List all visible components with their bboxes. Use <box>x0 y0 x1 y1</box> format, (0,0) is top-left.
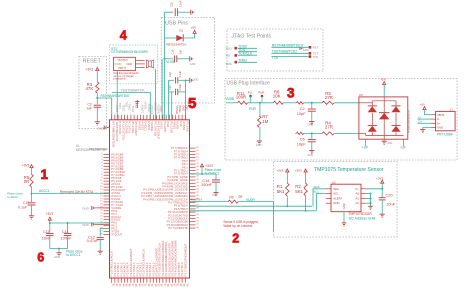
svg-text:to DVCC2: to DVCC2 <box>205 171 220 175</box>
svg-text:A0: A0 <box>355 192 359 196</box>
svg-text:V18X: V18X <box>160 106 164 113</box>
junction R2-SCL <box>305 210 307 212</box>
svg-text:USB Plug Interface: USB Plug Interface <box>227 80 270 86</box>
svg-text:TDI: TDI <box>225 54 230 58</box>
wire <box>226 102 238 104</box>
svg-text:TEST/SBWTCK: TEST/SBWTCK <box>121 88 146 92</box>
TVS array U3 body <box>359 97 408 139</box>
junction C2 <box>311 102 313 104</box>
wire D+ to TVS <box>334 102 359 104</box>
capacitor C15 on VUSB <box>165 58 174 60</box>
svg-text:0R: 0R <box>238 195 243 199</box>
svg-text:INPUT: INPUT <box>119 67 127 70</box>
U2 left pins <box>326 188 331 190</box>
svg-text:GND: GND <box>190 62 196 66</box>
resistor R11 100R <box>238 101 248 104</box>
testpoint pad RST <box>309 46 312 49</box>
section box: USB Plug Interface <box>225 79 457 161</box>
svg-text:+UP: +UP <box>362 146 369 150</box>
node AVCC junction <box>31 193 33 195</box>
node PUR <box>261 95 264 98</box>
wire cap join <box>50 248 68 250</box>
svg-text:A2: A2 <box>355 201 359 205</box>
resistor R8 10K <box>273 101 283 104</box>
svg-text:0R: 0R <box>24 179 29 184</box>
svg-text:27R: 27R <box>325 95 333 100</box>
svg-text:GND: GND <box>387 141 393 145</box>
svg-text:-UP: -UP <box>400 146 406 150</box>
svg-text:GND: GND <box>82 206 88 210</box>
svg-text:10pF: 10pF <box>297 111 306 116</box>
svg-text:D-: D- <box>418 115 421 119</box>
capacitor C19 2.2uF <box>169 91 174 93</box>
TVS internal rails <box>383 97 385 139</box>
node PU <box>249 95 252 98</box>
svg-text:100R: 100R <box>236 95 246 100</box>
svg-text:8.00M: 8.00M <box>115 63 122 66</box>
junction PUR rail <box>259 102 261 104</box>
ground (C14) <box>213 192 218 194</box>
capacitor C14 100nF <box>215 174 217 179</box>
section box: RESET <box>79 57 107 129</box>
diode D2b <box>391 106 400 112</box>
resistor R3 47K <box>96 82 99 93</box>
svg-text:GND: GND <box>256 143 262 147</box>
wire <box>96 93 98 104</box>
wire DVCC2 <box>190 173 217 175</box>
wire <box>96 71 98 82</box>
wire <box>283 102 296 104</box>
svg-text:Removed 32KHz XTAL →: Removed 32KHz XTAL → <box>60 190 98 194</box>
ground (rotated, C13) <box>190 10 192 15</box>
wire VU0R <box>238 201 273 203</box>
svg-text:V+: V+ <box>355 187 359 191</box>
svg-text:2.2uF: 2.2uF <box>178 0 182 7</box>
wire TST testpoint <box>271 52 308 54</box>
ground (jtag) <box>299 47 301 50</box>
wire <box>31 187 33 202</box>
wire RST to MCU <box>97 98 111 120</box>
wire TDO <box>238 47 257 49</box>
svg-text:27R: 27R <box>325 124 333 129</box>
svg-text:JTAG Test Points: JTAG Test Points <box>232 34 272 40</box>
svg-text:P2.7/UCB0STE: P2.7/UCB0STE <box>168 226 188 230</box>
svg-text:C6: C6 <box>300 136 305 141</box>
svg-text:+5V: +5V <box>420 102 425 106</box>
svg-text:VBUS: VBUS <box>437 113 445 117</box>
svg-text:5: 5 <box>188 95 196 112</box>
svg-text:C11: C11 <box>62 229 69 234</box>
svg-text:GND: GND <box>54 255 60 259</box>
svg-text:GND: GND <box>308 154 314 157</box>
sensor U2 TMP1075 body <box>331 184 361 212</box>
ground (rotated, C18) <box>189 78 191 83</box>
svg-text:GND: GND <box>127 63 133 66</box>
ground (C12) <box>98 250 103 252</box>
svg-text:100nF: 100nF <box>61 235 73 240</box>
wire <box>178 11 191 13</box>
svg-text:TMS2: TMS2 <box>238 59 247 63</box>
ferrite element D+ line <box>297 102 304 105</box>
svg-text:GND: GND <box>342 203 346 209</box>
svg-text:TCK: TCK <box>313 55 319 59</box>
svg-text:1: 1 <box>41 167 49 182</box>
wire TEST to MCU <box>112 93 150 120</box>
wire <box>31 168 33 175</box>
resonator XT1 body <box>114 57 136 70</box>
svg-text:GND: GND <box>437 126 443 130</box>
capacitor C13 2.2uF <box>174 8 176 16</box>
MCU left pins <box>104 153 110 155</box>
resistor R1 5K1 <box>286 183 289 196</box>
svg-text:5K1: 5K1 <box>277 189 285 194</box>
section box: JTAG Test Points <box>227 29 323 71</box>
capacitor C17 0.1uF <box>28 202 36 204</box>
svg-text:I2C Address 0x48: I2C Address 0x48 <box>349 216 376 220</box>
wire <box>248 102 274 104</box>
svg-text:10K: 10K <box>273 93 281 98</box>
wire diode to +5V <box>183 34 194 38</box>
svg-text:RB751S40T5G: RB751S40T5G <box>166 43 187 47</box>
svg-text:100nF: 100nF <box>201 182 213 187</box>
wires USB nets down to MCU <box>161 59 163 120</box>
ground (reset) <box>95 121 100 123</box>
junction C6 <box>311 132 313 134</box>
capacitor C12 0.47uF (VCORE) <box>100 229 109 237</box>
svg-text:TCK: TCK <box>272 56 279 60</box>
svg-text:P3.7/TB0OUTH/SVMOUT: P3.7/TB0OUTH/SVMOUT <box>183 243 187 276</box>
svg-text:5K1: 5K1 <box>295 189 303 194</box>
svg-text:produced: produced <box>113 77 125 81</box>
capacitor C6 10pF <box>311 133 313 138</box>
svg-text:Sense if USB is plugged,: Sense if USB is plugged, <box>223 220 258 224</box>
svg-text:47K: 47K <box>86 86 94 91</box>
ground (C2) <box>309 121 314 123</box>
svg-text:C3: C3 <box>88 102 92 106</box>
wire D- (connector) <box>418 118 431 120</box>
wire AVCC to MCU <box>32 193 110 195</box>
svg-text:2: 2 <box>232 231 239 245</box>
node RST junction <box>96 97 98 99</box>
svg-text:TMS: TMS <box>225 62 231 66</box>
svg-text:OUTPUT: OUTPUT <box>118 59 129 62</box>
svg-text:0.1uF: 0.1uF <box>178 70 182 77</box>
svg-text:VUSB: VUSB <box>166 60 175 64</box>
svg-text:GND: GND <box>303 48 309 52</box>
svg-text:U2: U2 <box>332 180 336 184</box>
svg-text:+5V: +5V <box>191 25 196 29</box>
svg-text:C20: C20 <box>386 193 394 198</box>
node VUSB junction <box>164 58 166 60</box>
svg-text:RESET: RESET <box>83 58 102 64</box>
wire DVCC <box>50 220 110 223</box>
diode D2a <box>368 106 377 112</box>
ground (rotated, VUSB) <box>189 56 191 61</box>
svg-text:RST: RST <box>313 45 319 49</box>
svg-text:R9: R9 <box>230 195 234 199</box>
svg-text:2.2uF: 2.2uF <box>178 83 182 90</box>
svg-text:RST/NMI/SBWTDIO: RST/NMI/SBWTDIO <box>101 94 130 98</box>
wire VBUS sense <box>190 201 229 203</box>
resistor R6 0R <box>30 174 33 187</box>
wire D- to TVS <box>334 132 359 134</box>
svg-text:GND: GND <box>333 201 339 205</box>
svg-text:0.47uF: 0.47uF <box>87 238 100 243</box>
diode D2c <box>368 126 377 132</box>
svg-text:SDA: SDA <box>313 185 319 189</box>
svg-text:TPD2EUSB30DRTR: TPD2EUSB30DRTR <box>406 110 410 134</box>
svg-text:+3V3: +3V3 <box>86 67 94 71</box>
junction R1-SDA <box>286 205 288 207</box>
section box: USB Pins <box>161 17 214 103</box>
svg-text:TMP1075 Temperature Sensor: TMP1075 Temperature Sensor <box>314 167 384 173</box>
ground (C17) <box>29 215 34 217</box>
wire <box>304 132 323 134</box>
svg-text:VU0R: VU0R <box>246 198 255 202</box>
TVS bottom pins <box>365 139 367 146</box>
svg-text:+3V3: +3V3 <box>295 168 302 172</box>
capacitor C2 10pF <box>311 103 313 108</box>
svg-text:PRT-USB4: PRT-USB4 <box>437 133 453 137</box>
svg-text:J1: J1 <box>450 108 453 112</box>
svg-text:CSTNR8M00GH5L000R0: CSTNR8M00GH5L000R0 <box>111 50 148 54</box>
connector pins <box>431 114 436 116</box>
wire <box>96 107 98 122</box>
ferrite element D- line <box>297 132 304 135</box>
power +3V3 (DVCC2) <box>200 164 203 167</box>
capacitor C10 10nF <box>49 223 51 232</box>
node join <box>58 248 60 250</box>
svg-text:+3V3: +3V3 <box>22 164 30 168</box>
svg-text:C13: C13 <box>170 2 174 7</box>
ground (C6) <box>309 149 314 151</box>
resistor R2 5K1 <box>304 183 307 196</box>
svg-text:TEST/SBWTCK2: TEST/SBWTCK2 <box>272 50 297 54</box>
svg-text:RST/NMI/SBWTDIO2: RST/NMI/SBWTDIO2 <box>272 44 304 48</box>
capacitor C18 0.1uF <box>169 79 174 81</box>
wire SDA <box>190 205 313 207</box>
svg-text:PU: PU <box>248 91 252 95</box>
svg-text:C15: C15 <box>171 49 175 54</box>
resistor R4 27R <box>322 132 334 135</box>
wire TDI <box>238 51 257 53</box>
svg-text:PUR: PUR <box>249 107 256 111</box>
resonator pins <box>136 59 145 61</box>
connector J1 body <box>436 111 456 130</box>
resistor R9 0R <box>228 200 238 203</box>
ground (address pins) <box>368 205 373 207</box>
wire cap rail down <box>185 80 187 120</box>
diode D2d <box>391 126 400 132</box>
ground (top pin) <box>136 100 138 108</box>
junction C10 <box>49 222 51 224</box>
ground (TVS) <box>383 139 385 141</box>
ground (connector) <box>423 128 431 130</box>
wire D+ (connector) <box>418 122 431 124</box>
svg-text:C10: C10 <box>43 229 51 234</box>
svg-text:to AVCC: to AVCC <box>7 195 19 199</box>
svg-text:10nF: 10nF <box>386 202 395 207</box>
svg-text:10pF: 10pF <box>297 141 306 146</box>
wire TMS <box>238 61 257 63</box>
section box: XT1 crystal <box>110 45 158 84</box>
wire SCL <box>190 210 317 212</box>
svg-text:1uF: 1uF <box>179 50 183 55</box>
svg-text:C17: C17 <box>23 201 29 205</box>
svg-text:SCL: SCL <box>313 190 319 194</box>
svg-text:GND: GND <box>212 193 218 197</box>
wire VUSB top <box>165 12 174 59</box>
svg-text:TCK/CLK: TCK/CLK <box>238 52 253 56</box>
svg-text:D+: D+ <box>418 120 422 124</box>
svg-text:D+: D+ <box>437 121 441 125</box>
zener D2z center <box>379 113 389 120</box>
svg-text:+5V: +5V <box>380 77 385 81</box>
testpoint pad TST <box>309 52 312 55</box>
svg-text:6: 6 <box>37 251 44 265</box>
svg-text:A1: A1 <box>355 197 359 201</box>
section box: TMP1075 Temperature Sensor <box>274 162 398 238</box>
MCU right pins <box>190 147 196 149</box>
svg-text:VUSB: VUSB <box>226 97 235 101</box>
svg-text:GND: GND <box>308 123 314 126</box>
svg-text:XT2OUT: XT2OUT <box>111 233 122 237</box>
ceramic resonator symbol <box>145 60 147 69</box>
svg-text:1M: 1M <box>262 119 268 124</box>
svg-text:SCL: SCL <box>333 192 339 196</box>
svg-text:NMI/SBWTDIO: NMI/SBWTDIO <box>89 147 109 151</box>
svg-text:+3V3: +3V3 <box>276 168 283 172</box>
svg-text:U3: U3 <box>359 93 363 97</box>
svg-text:C18: C18 <box>168 72 172 77</box>
MCU U1 MSP430F5529 body <box>110 120 190 278</box>
MCU top pins <box>111 115 113 120</box>
svg-text:+3V3: +3V3 <box>46 212 54 216</box>
wire V+ <box>366 188 382 190</box>
svg-text:TMP1075DSGR: TMP1075DSGR <box>349 212 373 216</box>
MCU bottom pins <box>111 278 113 283</box>
U2 right pins <box>361 188 366 190</box>
diode D1 RB751S40T5G <box>165 37 177 39</box>
svg-text:P5.1/A9: P5.1/A9 <box>185 121 189 132</box>
ground (U2 gnd pin) <box>343 212 345 223</box>
wire XT1 to MCU XOUT <box>155 69 157 120</box>
wire TCK testpoint <box>271 56 308 58</box>
svg-text:4: 4 <box>120 28 127 42</box>
svg-text:0.1uF: 0.1uF <box>18 205 27 209</box>
svg-text:U1: U1 <box>76 144 80 148</box>
svg-text:3: 3 <box>287 85 295 100</box>
U2 address pins tied <box>370 193 372 195</box>
svg-text:C2: C2 <box>300 106 305 111</box>
wire SCL to U2 <box>317 194 326 211</box>
wire SDA to U2 <box>313 189 326 206</box>
svg-text:TDO: TDO <box>225 46 232 50</box>
svg-text:1uF: 1uF <box>87 107 93 111</box>
wire TCK <box>238 54 257 56</box>
svg-text:ALERT: ALERT <box>333 197 342 201</box>
junction C11 <box>67 222 69 224</box>
ground (R7) <box>257 140 262 142</box>
svg-text:Wake up on connect: Wake up on connect <box>223 224 252 228</box>
capacitor C3 1uF <box>94 104 101 106</box>
testpoint pad TCK <box>309 55 312 58</box>
wire RST testpoint <box>271 46 308 48</box>
svg-text:GND: GND <box>193 78 199 82</box>
svg-text:AVCC1: AVCC1 <box>39 189 50 193</box>
svg-text:GND: GND <box>97 126 103 130</box>
svg-text:PUR: PUR <box>258 91 264 95</box>
wire XT1 to MCU XIN <box>116 71 118 120</box>
svg-text:D-: D- <box>437 117 440 121</box>
svg-text:GND: GND <box>82 223 88 227</box>
resistor R5 27R <box>322 101 334 104</box>
ground (DVCC caps) <box>56 252 61 254</box>
svg-text:D1: D1 <box>179 29 183 33</box>
capacitor C11 100nF <box>67 223 69 232</box>
svg-text:SDA: SDA <box>333 187 339 191</box>
resistor R7 1M pulldown <box>259 103 261 116</box>
svg-text:to DVCC1: to DVCC1 <box>66 253 81 257</box>
svg-text:USB Pins: USB Pins <box>165 21 188 27</box>
ground (C20) <box>380 213 385 215</box>
capacitor C20 10nF <box>381 189 383 198</box>
wire <box>304 102 323 104</box>
